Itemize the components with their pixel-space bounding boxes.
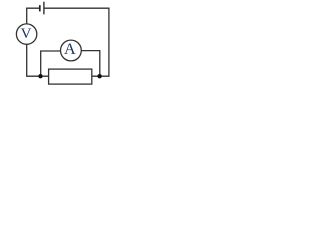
voltmeter U1 circle (16, 24, 36, 44)
svg-text:A: A (64, 40, 76, 58)
battery B1 long (positive) plate (43, 2, 45, 15)
wire ammeter right lead down to right junction (81, 51, 100, 77)
wire from voltmeter top to battery negative plate (27, 8, 40, 24)
junction node at right (dot) (97, 74, 101, 78)
ammeter U2 circle (61, 40, 82, 61)
wire ammeter left lead down to left junction (41, 51, 61, 76)
junction node at left (dot) (38, 74, 42, 78)
battery B1 short (negative) plate (39, 5, 41, 11)
wire from voltmeter bottom down and along bottom rail to resistor left edge (27, 44, 49, 76)
resistor R1 box (49, 69, 92, 84)
svg-text:V: V (21, 26, 32, 42)
wire from battery positive plate along top and right side down to resistor right node (44, 8, 109, 76)
